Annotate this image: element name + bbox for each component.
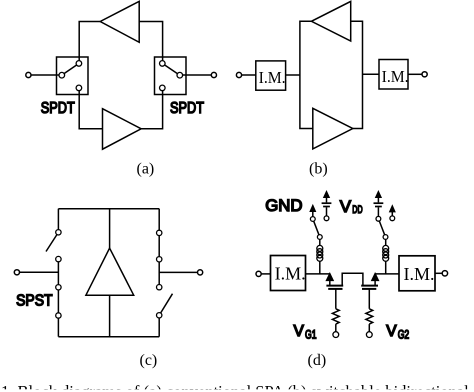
node: inductor L1 top contact	[317, 235, 322, 240]
supply symbol VDD left: contact	[324, 216, 329, 221]
supply symbol GND right: stem	[391, 211, 393, 216]
wire: SPDT1 top to amp A1 output	[79, 22, 100, 61]
svg-text:V: V	[340, 197, 352, 216]
svg-text:I.M.: I.M.	[382, 67, 409, 86]
matching network IM1 box	[256, 61, 286, 90]
switch SPDT1 arm	[64, 65, 77, 74]
supply symbol GND right: contact	[390, 216, 395, 221]
switch SPST3 closed link	[158, 236, 160, 257]
svg-text:G1: G1	[305, 330, 317, 342]
wire: top rail (c)	[58, 208, 159, 210]
supply symbol GND left: contact	[310, 217, 315, 222]
svg-text:GND: GND	[265, 196, 302, 215]
wire: right branch upper	[158, 209, 160, 231]
transistor M1 gate lead	[335, 289, 337, 309]
wire: IM2 to right port	[408, 73, 422, 75]
svg-text:I.M.: I.M.	[404, 264, 435, 284]
wire: amp A2 output to SPDT2 bottom	[141, 91, 162, 129]
wire: left rail (b)	[300, 21, 313, 128]
supply symbol VDD left: arrow	[324, 192, 329, 198]
svg-text:DD: DD	[352, 204, 362, 216]
supply symbol GND left: arrow	[310, 206, 315, 212]
node: output port (c)	[198, 270, 203, 275]
transistor M2 channel bar	[361, 285, 378, 287]
supply symbol GND right: arrow	[390, 206, 395, 212]
switch SPDT2 arm	[165, 65, 178, 74]
switch SPST3 contact b	[157, 257, 162, 262]
supply symbol GND left: stem	[312, 211, 314, 217]
transistor M2 gate bar	[362, 288, 376, 290]
switch SPDT1 throw bottom contact	[76, 85, 82, 91]
transistor M1 source arrow	[327, 274, 333, 281]
switch SPDT1 throw top contact	[76, 61, 82, 67]
wire: left port to IM3	[261, 273, 270, 275]
amplifier A5 (pointing up)	[86, 248, 134, 295]
wire: right branch mid with output junction	[158, 262, 160, 285]
amplifier A3 (top, pointing left)	[311, 1, 350, 41]
svg-text:(a): (a)	[137, 161, 155, 178]
supply symbol VDD right: bar2	[375, 206, 382, 208]
node: left RF port (d)	[256, 271, 261, 276]
switch SPDT2 box	[155, 57, 187, 95]
switch SPST3 (closed) contact a	[157, 230, 162, 235]
switch SPST4 contact b	[157, 313, 162, 318]
wire: SPDT2 to right port	[182, 74, 211, 76]
supply symbol VDD right: stem lower	[377, 207, 379, 216]
svg-text:G2: G2	[398, 330, 410, 342]
switch SPDT2 throw top contact	[160, 61, 166, 67]
amplifier A2 (bottom, pointing right)	[103, 109, 142, 150]
wire: IM1 to left rail	[286, 74, 300, 76]
wire: M2 source to IM4	[375, 273, 399, 275]
svg-text:(c): (c)	[140, 352, 158, 369]
switch SPST2 contact b	[56, 313, 61, 318]
svg-text:V: V	[294, 323, 305, 340]
node: inductor L2 top contact	[383, 235, 388, 240]
switch arm left branch (to GND)	[314, 221, 319, 235]
svg-text:(b): (b)	[309, 161, 328, 178]
wire: left branch upper	[57, 209, 59, 230]
wire: bottom rail (c)	[58, 336, 159, 338]
switch arm right branch (to VDD)	[379, 221, 384, 235]
supply symbol VDD left: stem upper	[326, 197, 328, 203]
switch SPST4 contact a	[157, 285, 162, 290]
node: right RF port (a)	[211, 72, 216, 77]
wire: IM3 to transistor M1 source	[306, 273, 331, 275]
wire: left branch lower	[57, 318, 59, 337]
transistor M1 gate bar	[328, 288, 342, 290]
switch SPST1 (open) arm	[46, 235, 57, 252]
switch SPST1 contact b	[56, 256, 61, 261]
transistor M1 channel bar	[326, 285, 343, 287]
supply symbol VDD right: arrow	[376, 192, 381, 198]
wire: amp input stem	[109, 209, 111, 248]
node: input port (c)	[14, 270, 19, 275]
wire: left port to IM1	[242, 74, 256, 76]
amplifier A1 (top, pointing left)	[100, 1, 139, 42]
wire: IM4 to right port	[435, 272, 442, 274]
wire: right branch lower	[158, 318, 160, 337]
svg-text:V: V	[386, 323, 397, 340]
amplifier A4 (bottom, pointing right)	[313, 108, 353, 149]
wire: right branch to output port	[159, 271, 197, 273]
supply symbol VDD left: bar1	[322, 202, 332, 204]
svg-text:SPDT: SPDT	[170, 100, 204, 117]
wire: amp A1 input to SPDT2 top	[139, 22, 162, 61]
node: VG1 terminal	[333, 332, 339, 338]
wire: left port to SPDT1	[31, 74, 59, 76]
node: right RF port (b)	[422, 72, 427, 77]
matching network IM3 box	[271, 256, 306, 291]
node: VG2 terminal	[366, 332, 372, 338]
svg-text:SPST: SPST	[16, 293, 53, 310]
switch SPST1 contact a	[56, 230, 61, 235]
resistor R1	[332, 309, 339, 324]
svg-text:I.M.: I.M.	[275, 264, 306, 284]
wire: right rail (b)	[351, 21, 363, 128]
svg-text:SPDT: SPDT	[41, 100, 75, 117]
matching network IM2 box	[379, 60, 408, 90]
switch SPDT1 common contact	[59, 72, 65, 78]
switch SPST4 (open) arm	[161, 294, 173, 313]
transistor M2 gate lead	[368, 289, 370, 309]
wire: drain bridge M1-M2	[342, 273, 363, 285]
transistor M2 source arrow	[372, 274, 378, 281]
supply symbol VDD right: contact	[376, 216, 381, 221]
svg-text:I.M.: I.M.	[259, 68, 286, 87]
caption crop mask	[0, 389, 474, 392]
node: left RF port (a)	[26, 72, 31, 77]
supply symbol VDD right: bar1	[374, 202, 384, 204]
switch SPST2 (closed) contact a	[56, 285, 61, 290]
matching network IM4 box	[399, 256, 435, 291]
switch SPDT2 throw bottom contact	[160, 85, 166, 91]
supply symbol VDD left: bar2	[323, 206, 330, 208]
node: right RF port (d)	[442, 271, 447, 276]
node: left RF port (b)	[236, 72, 241, 77]
inductor L2	[385, 239, 387, 245]
switch SPST2 closed link	[57, 290, 59, 313]
wire: right rail to IM2	[363, 73, 380, 75]
supply symbol VDD left: stem lower	[326, 207, 328, 216]
svg-text:(d): (d)	[308, 352, 327, 369]
wire: SPDT1 bottom to amp A2 input	[79, 91, 102, 129]
inductor L1	[319, 239, 321, 245]
wire: input port to left branch	[20, 271, 59, 273]
supply symbol VDD right: stem upper	[377, 197, 379, 203]
resistor R2	[366, 309, 373, 324]
switch SPDT1 box	[57, 57, 89, 95]
switch SPDT2 common contact	[177, 72, 183, 78]
wire: left branch mid with input junction	[57, 262, 59, 285]
wire: amp output stem	[109, 295, 111, 337]
